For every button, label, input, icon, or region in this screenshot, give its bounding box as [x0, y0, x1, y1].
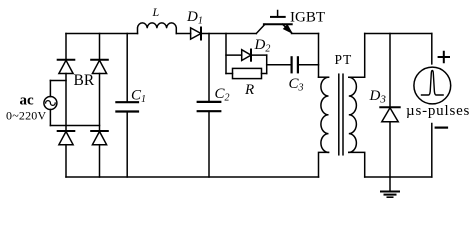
pulse source / output meter U1 [414, 67, 451, 104]
diode D2 [242, 50, 251, 61]
secondary winding [349, 77, 357, 152]
wire snubber to C3 [267, 64, 292, 66]
resistor R [233, 68, 262, 78]
core line left [338, 74, 340, 155]
capacitor C1 [126, 34, 128, 103]
capacitor C3 [291, 57, 293, 72]
svg-text:D3: D3 [369, 88, 387, 106]
wire top rail left (bridge top to inductor) [66, 33, 138, 35]
svg-text:C1: C1 [131, 88, 146, 106]
wire R branch right stub [262, 73, 267, 75]
svg-text:L: L [152, 5, 160, 19]
svg-text:C3: C3 [289, 76, 304, 94]
IGBT Q1 [256, 11, 292, 34]
wire secondary top lead [349, 34, 365, 78]
svg-text:IGBT: IGBT [290, 9, 325, 25]
diode BR-D2 (upper right) [91, 59, 108, 61]
svg-text:PT: PT [335, 52, 353, 67]
wire emitter corner down to transformer primary top [318, 34, 320, 78]
wire ac top to bridge left midpoint [50, 80, 66, 82]
wire bridge right leg middle [99, 74, 101, 132]
svg-text:D1: D1 [186, 9, 203, 27]
primary winding [321, 77, 329, 152]
wire primary bottom lead [319, 152, 329, 177]
wire snubber right vertical [266, 55, 268, 73]
ac source V1 [44, 97, 57, 110]
label minus [436, 126, 447, 128]
wire bridge right leg lower [99, 145, 101, 177]
svg-text:R: R [244, 82, 254, 98]
wire D1 to IGBT collector [201, 33, 256, 35]
diode BR-D1 (upper left) [58, 59, 75, 61]
sine wave inside source [46, 101, 56, 106]
wire bridge left leg middle [65, 74, 67, 132]
wire primary top lead [319, 76, 329, 78]
diode BR-D3 (lower left) [58, 130, 75, 132]
wire bridge right leg upper [99, 34, 101, 60]
svg-text:µs-pulses: µs-pulses [406, 103, 470, 119]
wire C3 to emitter vertical [298, 64, 319, 66]
wire output branch bottom [431, 124, 433, 178]
wire bottom rail (primary side) [66, 176, 319, 178]
diode BR-D4 (lower right) [91, 130, 108, 132]
wire R branch left stub [226, 73, 233, 75]
wire inductor to D1 [176, 33, 190, 35]
pulse waveform [422, 71, 444, 96]
wire D2 branch right stub [251, 54, 267, 56]
wire D2 branch left stub [226, 54, 242, 56]
diode D1 [191, 28, 201, 39]
diode D3 [389, 34, 391, 108]
svg-text:BR: BR [74, 72, 95, 89]
svg-text:C2: C2 [215, 86, 230, 104]
label plus [439, 52, 449, 62]
wire ac bottom stub [49, 110, 51, 126]
wire ac bottom to bridge right midpoint [50, 125, 99, 127]
svg-text:D2: D2 [254, 37, 271, 55]
wire ac top stub [49, 81, 51, 97]
svg-text:ac: ac [20, 93, 35, 109]
wire secondary top rail [365, 33, 432, 35]
svg-text:0~220V: 0~220V [6, 108, 46, 122]
wire IGBT emitter to corner [292, 33, 319, 35]
wire secondary bottom rail [365, 176, 432, 178]
wire bridge left leg upper [65, 34, 67, 60]
wire bridge left leg lower [65, 145, 67, 177]
wire secondary bottom lead [349, 152, 365, 177]
wire output branch top [431, 34, 433, 64]
core line right [342, 74, 344, 155]
wire snubber left vertical [225, 34, 227, 74]
inductor L [138, 23, 177, 34]
capacitor C2 [208, 34, 210, 102]
ground [389, 177, 391, 192]
